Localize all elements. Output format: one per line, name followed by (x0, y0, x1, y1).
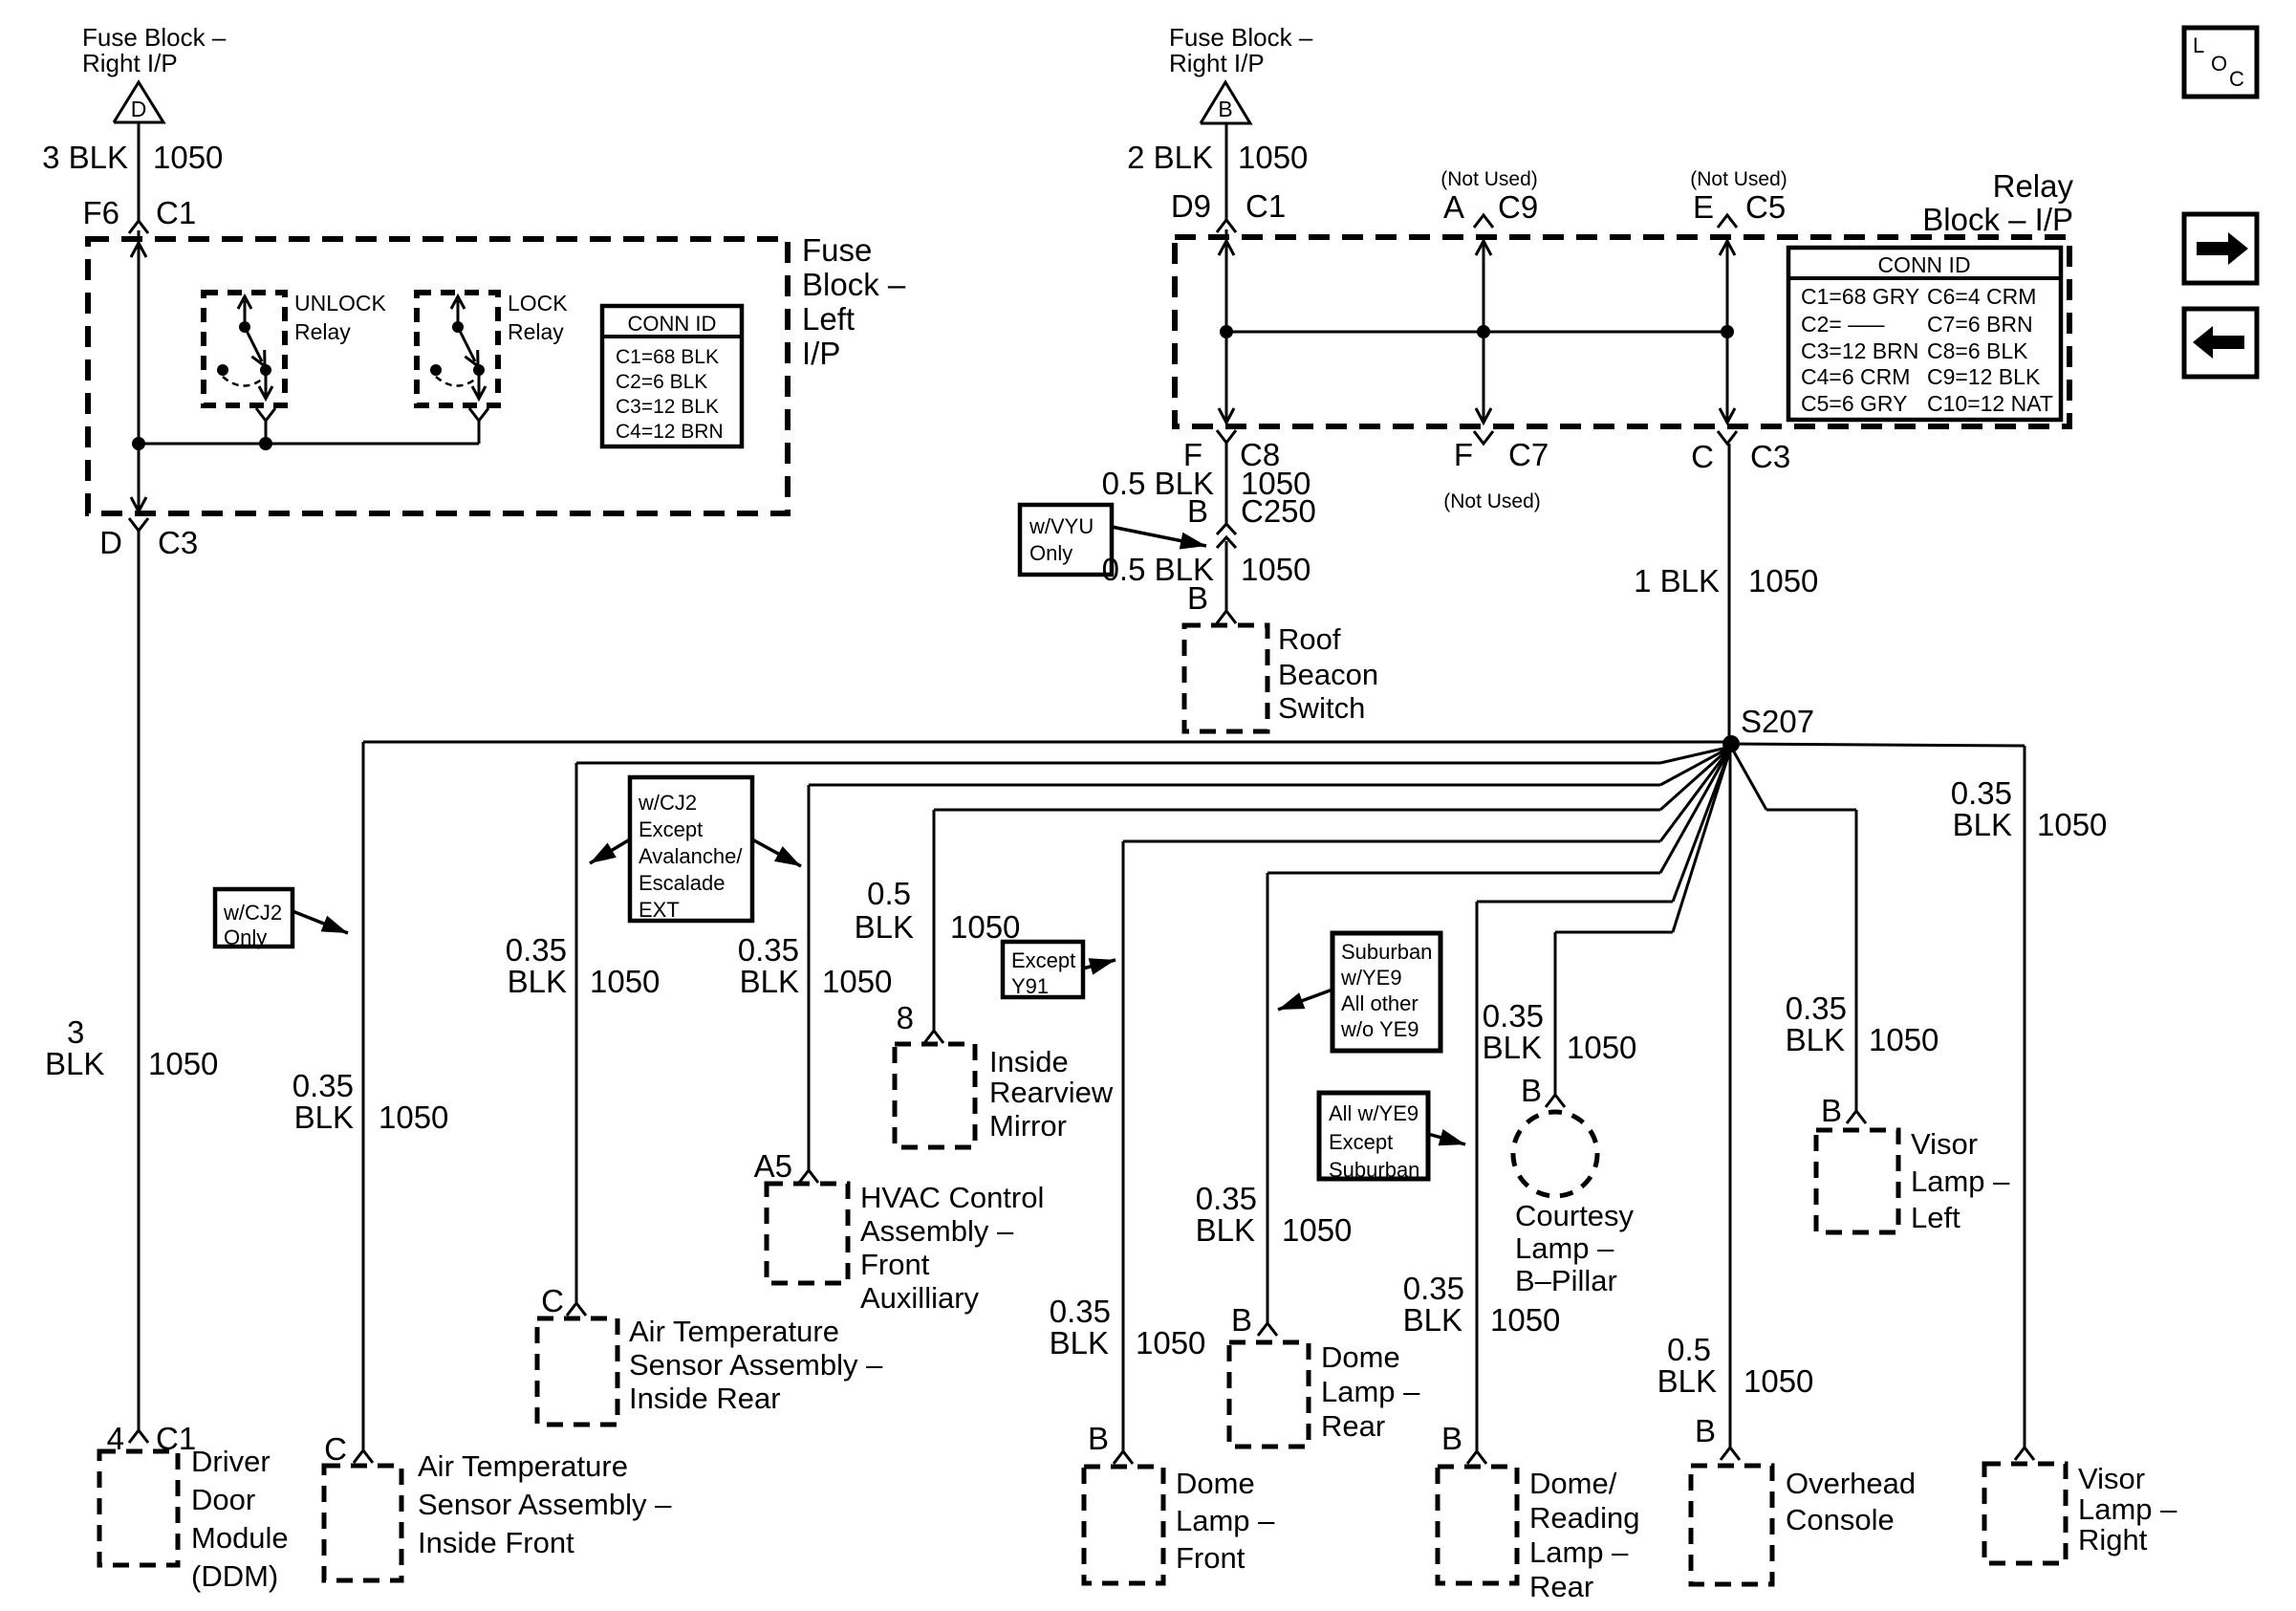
wire HVAC vertical (808, 785, 811, 1170)
unlock relay output arrow down (259, 372, 272, 399)
svg-text:Lamp –: Lamp – (1515, 1231, 1614, 1265)
wire C/C3 down to S207 (1728, 444, 1731, 744)
connector label B at roof beacon (1187, 580, 1208, 616)
svg-text:Left: Left (802, 301, 855, 337)
svg-text:B: B (1821, 1093, 1842, 1128)
svg-text:C1: C1 (1245, 188, 1286, 224)
unlock relay switch blade (245, 327, 265, 366)
connector chevron mirror (924, 1031, 943, 1043)
visor lamp left dashed box (1816, 1130, 1898, 1232)
connector label 8 (mirror) (897, 1000, 914, 1035)
wire rearview mirror vertical (933, 810, 936, 1031)
connector chevron dome/reading (1467, 1451, 1486, 1464)
wire label 2 BLK 1050 (1127, 140, 1308, 175)
wire label 0.35 BLK 1050 (HVAC) (738, 932, 893, 999)
svg-text:C3: C3 (1750, 439, 1790, 474)
arrow Except Y91 to wire (1083, 958, 1116, 974)
svg-text:Suburban: Suburban (1329, 1158, 1419, 1182)
off-page reference label Fuse Block Right I/P (left) (82, 23, 227, 77)
svg-text:All other: All other (1341, 991, 1419, 1015)
svg-text:B: B (1088, 1421, 1109, 1456)
svg-text:Sensor Assembly –: Sensor Assembly – (629, 1348, 883, 1382)
connector chevron C/C3 (1691, 431, 1790, 474)
svg-text:C: C (1691, 439, 1714, 474)
wire S207 branch horizontal y=975 (1555, 747, 1731, 932)
relay block vertical wire E-C (x=1807) (1720, 237, 1735, 424)
unlock relay dashed box (204, 293, 285, 405)
svg-text:Auxilliary: Auxilliary (860, 1281, 980, 1315)
wire D/C3 down to DDM (138, 531, 141, 1430)
svg-text:Reading: Reading (1529, 1501, 1639, 1535)
dome lamp front dashed box (1084, 1467, 1163, 1583)
svg-text:Switch: Switch (1278, 691, 1365, 725)
air temperature sensor front dashed box (324, 1466, 401, 1580)
svg-text:0.35: 0.35 (1403, 1271, 1464, 1306)
inside rearview mirror dashed box (895, 1044, 975, 1147)
svg-text:Air Temperature: Air Temperature (418, 1449, 628, 1483)
svg-text:1050: 1050 (153, 140, 223, 175)
svg-text:C2=6 BLK: C2=6 BLK (616, 371, 707, 393)
unlock relay label (294, 291, 387, 344)
svg-text:Lamp –: Lamp – (1176, 1504, 1275, 1537)
wire triangle D to connector F6/C1 (138, 122, 141, 222)
svg-text:Block –: Block – (802, 267, 906, 302)
svg-text:C10=12 NAT: C10=12 NAT (1927, 391, 2053, 416)
svg-text:C7=6 BRN: C7=6 BRN (1927, 312, 2033, 337)
svg-text:Only: Only (1029, 541, 1072, 565)
svg-text:0.5: 0.5 (867, 876, 911, 911)
relay block internal bus (1226, 331, 1727, 334)
svg-text:C4=12 BRN: C4=12 BRN (616, 421, 724, 443)
back arrow navigation box (2184, 309, 2257, 377)
connector chevron F/C8 (1183, 430, 1280, 472)
unlock relay pivot dot (239, 321, 250, 333)
splice S207 junction dot (1722, 735, 1740, 752)
svg-text:w/CJ2: w/CJ2 (638, 791, 697, 815)
svg-text:I/P: I/P (802, 336, 840, 371)
svg-text:1050: 1050 (379, 1099, 448, 1135)
splice S207 label (1741, 704, 1814, 739)
svg-text:C2= –––: C2= ––– (1801, 312, 1885, 337)
wire air temp front vertical (362, 742, 365, 1450)
off-page connector triangle D (114, 82, 163, 122)
connector label C (air temp rear) (541, 1283, 564, 1318)
wire S207 branch horizontal y=798 (576, 747, 1731, 763)
svg-text:(Not Used): (Not Used) (1443, 490, 1541, 512)
svg-text:Rearview: Rearview (989, 1076, 1114, 1109)
svg-text:BLK: BLK (508, 964, 567, 999)
svg-text:Relay: Relay (294, 319, 351, 344)
svg-text:C3=12 BLK: C3=12 BLK (616, 396, 719, 418)
wire inside fuse block (F6 feed down to bus) (131, 239, 146, 444)
svg-text:Rear: Rear (1529, 1570, 1593, 1603)
overhead console dashed box (1691, 1466, 1772, 1584)
svg-text:BLK: BLK (1403, 1302, 1462, 1338)
unlock relay output chevron (256, 408, 275, 421)
svg-text:Dome: Dome (1176, 1467, 1255, 1500)
lock relay contact dots (430, 364, 485, 376)
svg-text:0.5: 0.5 (1667, 1332, 1711, 1367)
svg-text:Relay: Relay (1993, 168, 2074, 204)
wire label 3 BLK 1050 (triangle D feed) (42, 140, 223, 175)
svg-text:Visor: Visor (1911, 1127, 1978, 1161)
svg-text:1050: 1050 (1567, 1030, 1636, 1065)
relay block I/P title (1922, 168, 2073, 237)
connector label B (courtesy) (1521, 1073, 1542, 1108)
svg-text:BLK: BLK (1786, 1022, 1845, 1057)
svg-text:0.35: 0.35 (292, 1068, 354, 1103)
svg-text:0.35: 0.35 (1786, 991, 1847, 1026)
connector chevron air temp rear (567, 1303, 586, 1316)
unlock relay coil arrow up (238, 296, 251, 327)
svg-text:3 BLK: 3 BLK (42, 140, 128, 175)
courtesy lamp dashed circle (1513, 1112, 1597, 1196)
svg-text:BLK: BLK (1953, 807, 2012, 842)
lock relay output chevron (469, 408, 488, 421)
svg-text:(Not Used): (Not Used) (1690, 168, 1787, 190)
svg-text:1050: 1050 (1869, 1022, 1939, 1057)
wire label 0.35 BLK 1050 (dome/reading) (1403, 1271, 1561, 1338)
connector label B (dome rear) (1231, 1302, 1252, 1338)
conn id table right title (1877, 252, 1970, 277)
svg-text:BLK: BLK (855, 909, 914, 945)
wire label 0.35 BLK 1050 (visor left) (1786, 991, 1939, 1057)
connector label A / C9 (1443, 189, 1538, 225)
svg-text:Air Temperature: Air Temperature (629, 1315, 839, 1348)
svg-text:Right I/P: Right I/P (1169, 49, 1265, 77)
lock relay dashed travel arc (436, 377, 476, 386)
svg-text:C250: C250 (1241, 493, 1316, 529)
wire label 1 BLK 1050 (1634, 563, 1818, 599)
svg-text:Right I/P: Right I/P (82, 49, 178, 77)
svg-text:0.35: 0.35 (738, 932, 799, 968)
wire label 0.35 BLK 1050 (courtesy) (1483, 998, 1637, 1065)
svg-text:A5: A5 (754, 1148, 792, 1184)
wire unlock relay to bus (265, 421, 268, 444)
dome lamp rear dashed box (1229, 1342, 1309, 1447)
svg-text:Inside: Inside (989, 1045, 1069, 1078)
svg-text:F: F (1454, 437, 1473, 472)
svg-text:Visor: Visor (2078, 1462, 2145, 1495)
wire S207 to visor lamp left (1731, 747, 1856, 1111)
wire S207 branch horizontal y=847 (934, 747, 1731, 810)
svg-text:D: D (131, 97, 147, 121)
condition box All w/YE9 Except Suburban (1319, 1093, 1428, 1182)
svg-text:D: D (99, 525, 122, 560)
svg-text:1050: 1050 (2037, 807, 2107, 842)
lock relay switch blade (458, 327, 478, 366)
connector label E / C5 (1693, 189, 1786, 225)
svg-text:Left: Left (1911, 1201, 1960, 1234)
driver door module dashed box (99, 1451, 178, 1565)
wire label 0.35 BLK 1050 (air temp rear) (506, 932, 661, 999)
wire label 0.35 BLK 1050 (visor right) (1951, 775, 2108, 842)
svg-text:(DDM): (DDM) (191, 1559, 278, 1593)
wire C250 to roof beacon switch (1225, 541, 1228, 611)
svg-text:Right: Right (2078, 1523, 2148, 1557)
svg-text:Front: Front (1176, 1541, 1245, 1575)
svg-text:Door: Door (191, 1483, 255, 1516)
dome lamp rear label (1321, 1340, 1420, 1443)
svg-text:1050: 1050 (148, 1046, 218, 1081)
connector label B / C250 (1187, 493, 1316, 529)
wire label 0.5 BLK 1050 (upper) (1102, 466, 1311, 501)
connector chevron dome rear (1258, 1323, 1277, 1336)
svg-text:Escalade: Escalade (639, 871, 726, 895)
connector label 4 / C1 at DDM (107, 1421, 197, 1456)
svg-text:1050: 1050 (1490, 1302, 1560, 1338)
svg-text:C1=68 GRY: C1=68 GRY (1801, 284, 1919, 309)
svg-text:C: C (2229, 67, 2244, 91)
svg-text:A: A (1443, 189, 1464, 225)
svg-text:BLK: BLK (45, 1046, 104, 1081)
wire label 0.5 BLK 1050 (overhead) (1657, 1332, 1814, 1399)
wire dome lamp front vertical (1122, 841, 1125, 1451)
svg-text:w/o YE9: w/o YE9 (1340, 1017, 1419, 1041)
not used label above E/C5 (1690, 168, 1787, 190)
connector chevron F6/C1 (129, 221, 148, 239)
wire S207 branch horizontal y=880 (1123, 747, 1731, 841)
connector label B (visor left) (1821, 1093, 1842, 1128)
conn id table right rows (1801, 284, 2053, 416)
svg-text:Inside Front: Inside Front (418, 1526, 574, 1559)
roof beacon switch dashed box (1184, 625, 1267, 731)
svg-text:1050: 1050 (1744, 1363, 1813, 1399)
inside rearview mirror label (989, 1045, 1114, 1143)
condition box w/CJ2 Only (215, 889, 292, 949)
visor lamp right dashed box (1984, 1464, 2066, 1563)
svg-text:Dome: Dome (1321, 1340, 1400, 1374)
lock relay pivot dot (452, 321, 464, 333)
svg-text:1050: 1050 (1282, 1212, 1352, 1248)
svg-text:CONN ID: CONN ID (1877, 252, 1970, 277)
wire label 0.5 BLK 1050 (lower) (1102, 552, 1311, 587)
lock relay dashed box (417, 293, 498, 405)
not used label below F/C7 (1443, 490, 1541, 512)
svg-text:C5: C5 (1745, 189, 1786, 225)
wire label 0.35 BLK 1050 (air temp front) (292, 1068, 449, 1135)
wire label 0.35 BLK 1050 (dome front) (1050, 1294, 1206, 1361)
connector label B (dome front) (1088, 1421, 1109, 1456)
roof beacon switch label (1278, 622, 1378, 725)
svg-text:0.35: 0.35 (1483, 998, 1544, 1034)
conn id table left box (602, 306, 742, 446)
svg-text:3: 3 (67, 1014, 84, 1050)
svg-text:L: L (2193, 33, 2204, 57)
svg-text:C3=12 BRN: C3=12 BRN (1801, 338, 1918, 363)
forward arrow navigation box (2184, 214, 2257, 283)
lock relay output arrow down (472, 372, 486, 399)
svg-text:B: B (1695, 1413, 1716, 1448)
unlock relay dashed travel arc (223, 377, 263, 386)
connector chevron dome front (1114, 1451, 1133, 1464)
wire dome reading lamp vertical (1476, 902, 1479, 1451)
wire label 0.35 BLK 1050 (dome rear) (1196, 1181, 1353, 1248)
svg-text:BLK: BLK (1483, 1030, 1542, 1065)
svg-text:1050: 1050 (1136, 1325, 1205, 1361)
dome reading lamp rear dashed box (1438, 1467, 1517, 1583)
relay block vertical wire D9-F (x=1283) (1219, 237, 1234, 424)
svg-text:C1=68 BLK: C1=68 BLK (616, 346, 719, 368)
wire S207 to air temp sensor front (top horizontal) (363, 741, 1731, 744)
junction dot fuse block bus left (132, 437, 145, 450)
svg-text:Courtesy: Courtesy (1515, 1199, 1635, 1232)
svg-text:C3: C3 (158, 525, 198, 560)
arrow w/CJ2 Except to right wire (752, 839, 801, 866)
condition box Suburban w/YE9 All other w/o YE9 (1332, 933, 1440, 1051)
off-page connector triangle B (1201, 82, 1250, 123)
relay block bus junction dots (1220, 325, 1734, 338)
svg-text:B: B (1231, 1302, 1252, 1338)
svg-text:B: B (1187, 580, 1208, 616)
wire dome lamp rear vertical (1267, 873, 1269, 1323)
svg-text:CONN ID: CONN ID (628, 312, 717, 336)
arrow w/CJ2 Only to wire (292, 911, 348, 933)
svg-text:All w/YE9: All w/YE9 (1329, 1101, 1419, 1125)
svg-text:C8=6 BLK: C8=6 BLK (1927, 338, 2028, 363)
svg-text:1050: 1050 (822, 964, 892, 999)
svg-text:Avalanche/: Avalanche/ (639, 844, 743, 868)
courtesy lamp label (1515, 1199, 1635, 1297)
conn id table left title (628, 312, 717, 336)
condition box Except Y91 (1003, 942, 1083, 998)
svg-text:HVAC Control: HVAC Control (860, 1181, 1044, 1214)
svg-text:0.35: 0.35 (506, 932, 567, 968)
svg-text:Lamp –: Lamp – (1321, 1375, 1420, 1408)
connector chevron courtesy (1546, 1095, 1565, 1107)
connector label A5 (HVAC) (754, 1148, 792, 1184)
junction dot unlock wire on bus (259, 437, 272, 450)
wire triangle B to D9/C1 (1225, 123, 1228, 221)
HVAC control assembly label (860, 1181, 1044, 1315)
connector chevron D/C3 below fuse block (99, 518, 198, 560)
connector chevron at DDM (129, 1430, 148, 1443)
svg-text:Rear: Rear (1321, 1409, 1385, 1443)
svg-text:BLK: BLK (1050, 1325, 1109, 1361)
svg-text:BLK: BLK (294, 1099, 354, 1135)
svg-text:B: B (1441, 1421, 1462, 1456)
svg-text:0.35: 0.35 (1196, 1181, 1257, 1216)
condition box w/VYU Only (1020, 505, 1112, 575)
svg-text:LOCK: LOCK (508, 291, 568, 316)
svg-text:BLK: BLK (1657, 1363, 1717, 1399)
connector chevron D9/C1 (1217, 220, 1236, 237)
svg-text:Fuse: Fuse (802, 232, 872, 268)
fuse block left I/P title (802, 232, 906, 371)
svg-text:Fuse Block –: Fuse Block – (1169, 23, 1313, 52)
svg-text:Roof: Roof (1278, 622, 1341, 656)
svg-text:Console: Console (1786, 1503, 1895, 1536)
svg-text:Lamp –: Lamp – (1911, 1165, 2010, 1198)
svg-text:C: C (541, 1283, 564, 1318)
svg-text:0.35: 0.35 (1050, 1294, 1111, 1329)
svg-text:Only: Only (224, 925, 267, 949)
connector chevron air temp front (354, 1450, 373, 1463)
air temperature sensor rear dashed box (537, 1318, 617, 1425)
fuse block left I/P dashed box (88, 239, 788, 513)
svg-text:B: B (1521, 1073, 1542, 1108)
air temperature sensor front label (418, 1449, 672, 1559)
connector chevron visor right (2015, 1448, 2034, 1460)
connector chevron A/C9 (1474, 215, 1493, 228)
svg-text:UNLOCK: UNLOCK (294, 291, 387, 316)
svg-text:Sensor Assembly –: Sensor Assembly – (418, 1488, 672, 1521)
connector chevron visor left (1847, 1111, 1866, 1123)
svg-text:Suburban: Suburban (1341, 940, 1432, 964)
svg-text:B: B (1218, 97, 1232, 121)
svg-text:1050: 1050 (1238, 140, 1308, 175)
svg-text:Lamp –: Lamp – (1529, 1535, 1629, 1569)
svg-text:C1: C1 (156, 195, 196, 230)
connector label C (air temp front) (324, 1431, 347, 1467)
air temperature sensor rear label (629, 1315, 883, 1415)
wire F/C8 to C250 (1225, 443, 1228, 524)
svg-text:C5=6 GRY: C5=6 GRY (1801, 391, 1907, 416)
connector chevron at roof beacon (1217, 611, 1236, 623)
in-line connector C250 double chevron (1217, 524, 1236, 548)
dome lamp front label (1176, 1467, 1275, 1575)
svg-text:1050: 1050 (950, 909, 1020, 945)
svg-text:Except: Except (639, 817, 703, 841)
overhead console label (1786, 1467, 1916, 1536)
connector label B (dome/reading) (1441, 1421, 1462, 1456)
svg-text:E: E (1693, 189, 1714, 225)
wire air temp rear vertical (575, 763, 578, 1303)
svg-text:BLK: BLK (1196, 1212, 1255, 1248)
svg-text:Module: Module (191, 1521, 289, 1555)
connector chevron overhead (1721, 1448, 1740, 1460)
svg-text:Except: Except (1011, 948, 1075, 972)
driver door module label (191, 1445, 289, 1593)
wire S207 to visor lamp right (top right horizontal) (1731, 744, 2025, 1448)
svg-text:Beacon: Beacon (1278, 658, 1378, 691)
wire S207 branch horizontal y=943 (1477, 747, 1731, 902)
svg-text:F6: F6 (82, 195, 119, 230)
connector label D9 / C1 (1171, 188, 1286, 224)
wire courtesy lamp vertical (1554, 932, 1557, 1095)
svg-text:C6=4 CRM: C6=4 CRM (1927, 284, 2036, 309)
svg-text:D9: D9 (1171, 188, 1211, 224)
lock relay label (508, 291, 568, 344)
arrow w/CJ2 Except to left wire (590, 839, 630, 863)
svg-text:B: B (1187, 493, 1208, 529)
wire lock relay to bus (478, 421, 481, 444)
svg-text:2 BLK: 2 BLK (1127, 140, 1213, 175)
visor lamp right label (2078, 1462, 2177, 1557)
svg-text:Overhead: Overhead (1786, 1467, 1916, 1500)
HVAC control assembly dashed box (767, 1184, 848, 1283)
svg-text:Lamp –: Lamp – (2078, 1492, 2177, 1526)
svg-text:w/CJ2: w/CJ2 (223, 901, 282, 925)
conn id table right box (1788, 248, 2061, 420)
wire S207 branch horizontal y=821 (809, 747, 1731, 785)
connector label B (overhead) (1695, 1413, 1716, 1448)
svg-text:0.35: 0.35 (1951, 775, 2012, 811)
connector label F6 / C1 (82, 195, 196, 230)
svg-text:(Not Used): (Not Used) (1440, 168, 1538, 190)
svg-text:Relay: Relay (508, 319, 564, 344)
not used label above A/C9 (1440, 168, 1538, 190)
svg-text:Block – I/P: Block – I/P (1922, 202, 2073, 237)
condition box w/CJ2 Except Avalanche/Escalade EXT (630, 777, 752, 922)
connector chevron HVAC (799, 1170, 818, 1183)
arrow w/VYU Only to wire (1112, 527, 1206, 550)
visor lamp left label (1911, 1127, 2010, 1234)
dome reading lamp rear label (1529, 1467, 1639, 1603)
wire label 0.5 BLK 1050 (mirror) (855, 876, 1021, 945)
svg-text:B–Pillar: B–Pillar (1515, 1264, 1617, 1297)
svg-text:Y91: Y91 (1011, 974, 1049, 998)
